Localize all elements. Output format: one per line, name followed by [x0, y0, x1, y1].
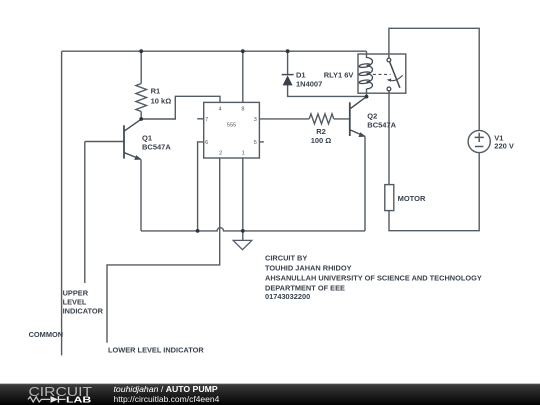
svg-text:http://circuitlab.com/cf4een4: http://circuitlab.com/cf4een4 [114, 394, 220, 404]
junction dot coil bottom / D1 / Q2 collector [365, 95, 369, 99]
wire 555 pin 8 to top rail [242, 51, 244, 102]
junction dot rail / pin 6 [196, 229, 200, 233]
junction dot top rail / D1 [286, 49, 290, 53]
transistor Q1 [124, 119, 141, 159]
svg-text:1: 1 [242, 150, 245, 156]
svg-text:LOWER LEVEL INDICATOR: LOWER LEVEL INDICATOR [108, 346, 204, 355]
svg-text:CIRCUIT BY: CIRCUIT BY [265, 254, 307, 263]
svg-text:2: 2 [219, 150, 222, 156]
svg-text:BC547A: BC547A [367, 120, 396, 129]
diode D1 [282, 75, 294, 86]
wire ground stub [242, 231, 244, 241]
svg-text:8: 8 [241, 106, 244, 112]
wire D1 anode to relay coil node [288, 85, 367, 96]
logo resistor glyph [28, 397, 50, 402]
svg-text:220 V: 220 V [494, 142, 514, 151]
svg-text:7: 7 [205, 117, 208, 123]
wire Q1 emitter down [140, 160, 142, 231]
svg-text:D1: D1 [296, 71, 306, 80]
junction dot top rail / R1 [139, 49, 143, 53]
relay RLY1 coil [359, 58, 373, 89]
svg-text:1N4007: 1N4007 [296, 80, 322, 89]
wire top V+ rail [62, 50, 367, 52]
resistor R2 [309, 114, 334, 124]
svg-text:touhidjahan / AUTO PUMP: touhidjahan / AUTO PUMP [114, 384, 218, 394]
wire R1 top [140, 51, 142, 83]
svg-text:10 kΩ: 10 kΩ [151, 97, 172, 106]
svg-text:5: 5 [254, 140, 257, 146]
svg-text:UPPER: UPPER [63, 289, 89, 298]
wire Q2 emitter down [364, 137, 366, 231]
wire Q1 base [85, 141, 124, 143]
wire 555 pin 6 [198, 142, 204, 231]
svg-text:R1: R1 [151, 87, 161, 96]
wire 555 pin 7 stub [197, 118, 204, 120]
svg-text:LAB: LAB [66, 395, 92, 404]
svg-text:INDICATOR: INDICATOR [63, 307, 104, 316]
wire relay coil bottom to node [366, 89, 368, 97]
svg-text:MOTOR: MOTOR [398, 194, 426, 203]
svg-text:AHSANULLAH UNIVERSITY OF SCIEN: AHSANULLAH UNIVERSITY OF SCIENCE AND TEC… [265, 274, 482, 283]
relay RLY1 box [358, 54, 406, 93]
junction dot rail / pin 1 / ground [241, 229, 245, 233]
wire upper level indicator [84, 142, 86, 284]
wire D1 cathode to top rail [287, 51, 289, 74]
logo diode glyph [51, 396, 66, 403]
junction dot top rail / pin 8 [241, 49, 245, 53]
wire relay switch to top loop and V1 top [389, 28, 479, 130]
wire motor top to relay switch bottom [388, 91, 390, 185]
wire V1 bottom to motor bottom [389, 153, 479, 231]
wire 555 pin 1 to ground rail [242, 158, 244, 231]
transistor Q2 [350, 97, 367, 137]
wire 555 pin 3 to R2 [259, 118, 309, 120]
source V1 [468, 130, 490, 152]
resistor R1 [136, 84, 147, 112]
relay RLY1 switch [373, 58, 403, 91]
ground [233, 240, 252, 249]
svg-text:Q1: Q1 [142, 134, 152, 143]
motor M1 [385, 185, 394, 211]
svg-text:BC547A: BC547A [142, 142, 171, 151]
label UPPER LEVEL INDICATOR [63, 289, 104, 316]
svg-text:TOUHID JAHAN RHIDOY: TOUHID JAHAN RHIDOY [265, 264, 352, 273]
wire R1 bottom [140, 112, 142, 120]
svg-text:4: 4 [218, 106, 221, 112]
footer bar [0, 384, 540, 405]
svg-text:RLY1 6V: RLY1 6V [324, 71, 354, 80]
wire 555 pin 2 to lower level indicator [107, 158, 220, 343]
wire R2 to Q2 base [334, 118, 350, 120]
wire COMMON vertical [61, 51, 63, 355]
svg-text:COMMON: COMMON [29, 330, 64, 339]
svg-text:3: 3 [254, 117, 257, 123]
junction dot R1 bottom / Q1 collector [139, 117, 143, 121]
svg-text:6: 6 [205, 140, 208, 146]
IC U1 555 timer box [204, 102, 260, 158]
wire R1/Q1 node to 555 pin 4 [141, 96, 220, 119]
svg-text:LEVEL: LEVEL [63, 298, 87, 307]
svg-text:555: 555 [227, 123, 236, 129]
svg-text:01743032200: 01743032200 [265, 292, 310, 301]
wire relay coil top to rail [366, 51, 368, 58]
svg-text:Q2: Q2 [367, 112, 377, 121]
wire 555 pin 5 stub [259, 141, 264, 143]
wire ground rail with hop [141, 228, 365, 231]
svg-text:100 Ω: 100 Ω [311, 136, 332, 145]
